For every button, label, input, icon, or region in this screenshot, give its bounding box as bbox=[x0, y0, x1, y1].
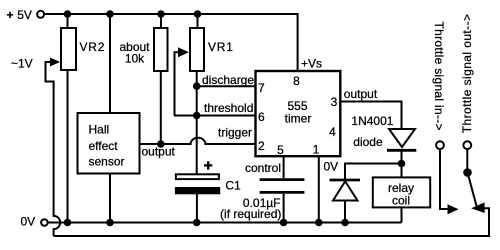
wire Hall sensor supply lead bbox=[109, 14, 111, 113]
svg-text:VR1: VR1 bbox=[208, 40, 234, 54]
wire +5V rail bbox=[44, 14, 298, 71]
wire VR2 wiper to bottom rail (hops over 0V rail) bbox=[46, 62, 61, 236]
wire throttle out to pole bbox=[466, 149, 468, 169]
diode D2 flyback bbox=[330, 180, 361, 201]
capacitor C2 0.01uF bbox=[260, 180, 305, 193]
node 0V at VR2 bbox=[64, 219, 72, 227]
svg-text:C1: C1 bbox=[225, 179, 241, 193]
svg-text:threshold: threshold bbox=[204, 101, 253, 115]
wire Hall sensor ground lead bbox=[109, 174, 111, 223]
wire 10k top lead bbox=[160, 14, 162, 28]
wire pin 1 lead bbox=[318, 156, 320, 222]
relay coil RL1 bbox=[373, 177, 430, 207]
wire VR1 wiper to threshold bbox=[175, 52, 179, 115]
wire VR2 bottom lead bbox=[67, 70, 69, 223]
svg-text:0V: 0V bbox=[21, 215, 36, 229]
wire D1 cathode lead bbox=[401, 152, 403, 164]
node 0V at Hall sensor bbox=[106, 219, 114, 227]
svg-text:~1V: ~1V bbox=[11, 57, 33, 71]
wire VR2 top lead bbox=[67, 14, 69, 28]
Hall effect sensor U1 bbox=[78, 113, 140, 174]
svg-text:coil: coil bbox=[392, 194, 410, 208]
resistor R1 about 10k bbox=[119, 28, 167, 71]
svg-text:6: 6 bbox=[258, 110, 265, 124]
node on +5V rail at VR1 bbox=[194, 10, 202, 18]
wire 0V rail bbox=[48, 222, 402, 224]
wire throttle in to contact bbox=[440, 149, 448, 209]
wire threshold (pin 6) bbox=[174, 115, 256, 117]
VR2 wiper arrow bbox=[50, 58, 60, 67]
wire VR1 bottom lead down to C1 bbox=[196, 71, 198, 174]
svg-text:discharge: discharge bbox=[202, 73, 254, 87]
svg-text:Throttle signal out-->: Throttle signal out--> bbox=[460, 14, 474, 134]
diode D1 1N4001 bbox=[351, 114, 416, 150]
switch arm wire bbox=[468, 173, 477, 208]
capacitor C1 bbox=[175, 161, 241, 194]
node switch pole bbox=[463, 168, 472, 177]
node 0V at D2 bbox=[341, 219, 349, 227]
svg-text:1N4001: 1N4001 bbox=[351, 114, 393, 128]
svg-text:trigger: trigger bbox=[218, 126, 252, 140]
svg-text:Throttle signal in-->: Throttle signal in--> bbox=[432, 22, 446, 131]
svg-text:5: 5 bbox=[277, 143, 284, 157]
svg-text:0V: 0V bbox=[324, 160, 339, 174]
node output/10k junction bbox=[157, 140, 165, 148]
wire C1 bottom lead bbox=[196, 194, 198, 223]
svg-text:3: 3 bbox=[331, 95, 338, 109]
svg-text:7: 7 bbox=[258, 81, 265, 95]
Throttle signal in terminal bbox=[436, 141, 444, 149]
node 0V at pin 1 bbox=[315, 219, 323, 227]
wire VR1 top lead bbox=[197, 14, 199, 28]
wire D2 anode lead bbox=[344, 201, 346, 223]
svg-text:control: control bbox=[245, 161, 281, 175]
svg-text:sensor: sensor bbox=[89, 155, 125, 169]
svg-text:VR2: VR2 bbox=[80, 40, 106, 54]
svg-text:+Vs: +Vs bbox=[301, 57, 322, 71]
node 0V at C1 bbox=[193, 219, 201, 227]
throttle in contact arrow bbox=[448, 204, 459, 214]
wire relay top lead bbox=[401, 164, 403, 178]
wire Hall sensor output to trigger (hops over C1 lead) bbox=[140, 138, 256, 144]
svg-text:effect: effect bbox=[89, 139, 119, 153]
node discharge junction bbox=[193, 82, 201, 90]
wire junction to flyback diode bbox=[345, 164, 402, 180]
node threshold junction bbox=[193, 112, 201, 120]
svg-text:10k: 10k bbox=[125, 52, 145, 66]
wire C2 bottom lead bbox=[283, 194, 285, 223]
svg-text:1: 1 bbox=[313, 143, 320, 157]
svg-text:5V: 5V bbox=[17, 8, 32, 22]
svg-text:Hall: Hall bbox=[89, 123, 110, 137]
wire output pin 3 bbox=[340, 102, 401, 130]
VR1 wiper arrow bbox=[178, 47, 189, 57]
svg-text:(if required): (if required) bbox=[220, 207, 281, 221]
node on +5V rail at 10k resistor bbox=[157, 10, 165, 18]
wire discharge (pin 7) bbox=[197, 85, 256, 87]
potentiometer VR2 bbox=[61, 28, 105, 70]
svg-text:2: 2 bbox=[258, 139, 265, 153]
0V terminal bbox=[41, 219, 48, 226]
svg-text:8: 8 bbox=[293, 74, 300, 88]
svg-text:diode: diode bbox=[353, 135, 383, 149]
node D1/relay junction bbox=[398, 160, 406, 168]
wire relay bottom lead bbox=[401, 207, 403, 222]
switch arm contact arrow bbox=[471, 202, 484, 213]
svg-text:timer: timer bbox=[285, 112, 312, 126]
wire bottom rail bbox=[54, 208, 489, 236]
+5V terminal bbox=[37, 11, 44, 18]
node 0V at C2 bbox=[280, 219, 288, 227]
node on +5V rail at Hall sensor bbox=[106, 10, 114, 18]
svg-text:+: + bbox=[7, 8, 14, 22]
svg-text:4: 4 bbox=[329, 125, 336, 139]
op 555 timer U2 bbox=[256, 71, 341, 157]
wire 10k bottom lead bbox=[160, 71, 162, 144]
node on +5V rail at VR2 bbox=[64, 10, 72, 18]
potentiometer VR1 bbox=[190, 28, 234, 71]
svg-text:output: output bbox=[344, 87, 378, 101]
wire pin 5 lead bbox=[283, 156, 285, 178]
Throttle signal out terminal bbox=[463, 141, 471, 149]
